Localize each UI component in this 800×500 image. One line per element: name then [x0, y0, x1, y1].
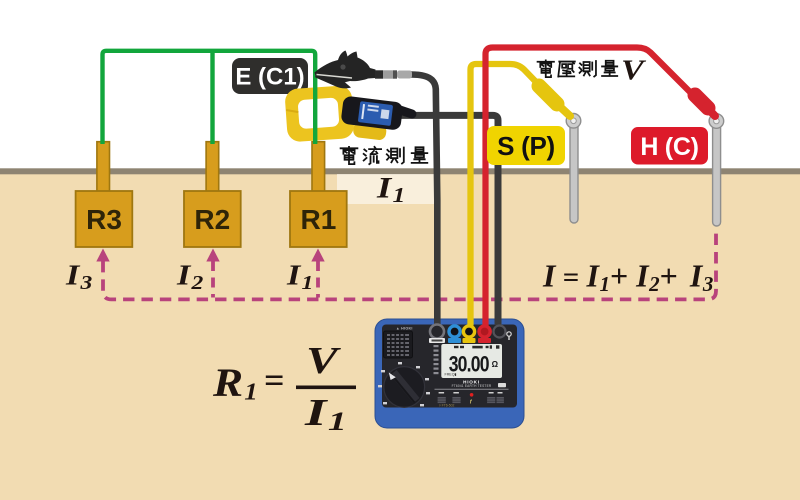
indicator LED: [470, 393, 474, 397]
function buttons: [438, 397, 504, 403]
svg-text:=: =: [264, 360, 285, 400]
caption current measurement 電流測量: [341, 147, 428, 164]
clamp cable stub: [400, 110, 412, 114]
soil ground: [0, 174, 800, 500]
black cable from alligator clip to terminal E: [411, 75, 437, 326]
dashed riser I2: [211, 261, 215, 298]
alligator clip: [315, 51, 376, 89]
svg-text:Ω: Ω: [492, 360, 499, 369]
left symbol column: [434, 345, 439, 374]
device front panel: [382, 325, 517, 408]
arrow to R3: [96, 249, 109, 262]
panel separator line: [435, 388, 509, 390]
arrow to R2: [206, 249, 219, 262]
rotary dial: [384, 367, 425, 408]
svg-text:S (P): S (P): [497, 131, 555, 161]
svg-text:FT6041 EARTH TESTER: FT6041 EARTH TESTER: [452, 384, 492, 388]
dashed riser I1: [316, 261, 320, 298]
svg-text:FREQ▮: FREQ▮: [445, 373, 457, 377]
svg-text:V: V: [621, 54, 647, 86]
device terminals: [429, 325, 511, 344]
ground surface line: [0, 168, 800, 174]
label box H (C): [631, 127, 708, 165]
clamp jaw: [284, 85, 355, 143]
auxiliary earth spike S: [566, 114, 581, 224]
terminal label chips: [429, 338, 445, 343]
svg-text:E (C1): E (C1): [235, 64, 304, 91]
device dot-matrix block: [384, 331, 413, 358]
clamp trigger lever: [352, 121, 387, 141]
svg-text:R2: R2: [194, 204, 230, 235]
arrow to R1: [311, 249, 324, 262]
electrode R2: [184, 142, 241, 247]
svg-text:◊ FT6-502: ◊ FT6-502: [439, 403, 455, 407]
electrode R1: [290, 142, 347, 247]
yellow wire S: [471, 64, 539, 326]
svg-text:H (C): H (C): [640, 133, 698, 161]
clip connector segments: [375, 70, 412, 78]
red probe boot: [695, 95, 708, 108]
electrode R3: [76, 142, 133, 247]
svg-text:▲ HIOKI: ▲ HIOKI: [396, 327, 413, 331]
LCD display: [441, 344, 502, 378]
red wire H: [486, 48, 697, 326]
formula R1 = V / I1: [212, 340, 356, 436]
clamp body: [341, 96, 404, 131]
yellow probe boot: [539, 86, 557, 104]
green wire drop R2: [210, 51, 214, 144]
caption voltage measurement 電壓測量V: [538, 60, 618, 77]
clamp sensor CT: [284, 85, 412, 143]
green wire bus E: [103, 51, 316, 144]
label box S (P): [487, 126, 565, 165]
dial tick marks: [378, 362, 430, 406]
label box E (C1): [232, 58, 308, 94]
black cable from clamp sensor to terminal 5: [399, 115, 498, 325]
lamp icon: [507, 332, 511, 336]
svg-text:R3: R3: [86, 204, 122, 235]
white label band for I1: [337, 174, 436, 204]
svg-text:V: V: [306, 340, 341, 382]
dashed current-return line: [103, 231, 716, 299]
svg-text:R1: R1: [301, 204, 337, 235]
auxiliary earth spike H: [709, 114, 724, 226]
DEVICE earth tester body: [375, 319, 524, 428]
